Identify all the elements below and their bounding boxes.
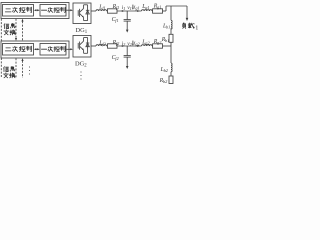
svg-text:Lb2: Lb2 [160,67,169,73]
tie line below row2 [170,46,172,63]
wire with current arrow i2 [117,45,142,47]
communication link down (below DG2) [15,58,17,78]
svg-text:Rf1: Rf1 [112,4,120,10]
svg-text:Lg1: Lg1 [141,4,149,10]
bidirectional arrow between secondary and primary control DG1 [34,9,40,11]
diode D2 inside DG2 [86,38,89,54]
svg-text:Lb1: Lb1 [162,24,170,30]
label information exchange (信息交换) between rows [4,23,16,34]
resistor Rb1 (vertical) [169,34,173,42]
DG1 controller outer box [1,3,69,19]
bidirectional arrow between secondary and primary control DG2 [34,48,40,50]
svg-text:Cf2: Cf2 [112,55,120,61]
resistor Rf1 [108,9,118,13]
resistor Rf2 [108,44,118,48]
capacitor Cf2 [124,46,131,69]
svg-text:v1: v1 [127,5,132,11]
arrow primary control to inverter DG1 [66,9,72,11]
communication link up (between DG2 and DG1) [21,19,23,41]
svg-text:Rg1: Rg1 [153,4,162,10]
DG2 controller outer box [1,41,69,58]
wire DG1 output [91,10,96,12]
inductor Lg2 [142,45,153,46]
svg-text:1: 1 [195,24,198,31]
communication link up (into DG2) [21,58,23,78]
resistor Rg1 [153,9,163,13]
arrow primary control to inverter DG2 [66,48,72,50]
label load 1 (负载1) [183,23,199,31]
current arrow ig2 [137,45,140,47]
svg-text:ig1: ig1 [134,5,140,11]
svg-text:Lg2: Lg2 [141,39,150,45]
wire [106,45,109,47]
load branch arrow [186,6,189,21]
inductor Lg1 [142,10,153,11]
wire to bottom edge [170,83,172,86]
wire [151,45,154,47]
communication link down (between DG1 and DG2) [15,19,17,41]
wire DG2 output [91,45,96,47]
left communication bus line [0,19,2,77]
diode D1 inside DG1 [86,5,89,21]
wire joining row2 [170,42,172,46]
svg-text:Lf2: Lf2 [98,40,106,46]
inductor Lb1 (vertical) [171,20,172,29]
inductor Lb2 (vertical) [171,63,172,72]
ellipsis below DG2 [80,71,81,79]
svg-text:Lf1: Lf1 [98,4,105,10]
inductor Lf1 [96,10,107,11]
inverter box DG1 [73,3,91,24]
svg-text:i1: i1 [122,5,126,11]
inductor Lf2 [96,45,107,46]
box secondary control (二次控制) DG2 [3,44,34,56]
box secondary control (二次控制) DG1 [3,5,34,17]
wire [170,72,172,76]
current arrow ig1 [137,10,140,12]
box primary control (一次控制) DG2 [40,44,66,56]
resistor Rg2 [153,44,163,48]
svg-text:Cf1: Cf1 [112,17,119,23]
box primary control (一次控制) DG1 [40,5,66,17]
wire to bus node [163,10,167,12]
wire [106,10,109,12]
svg-text:Rf2: Rf2 [112,40,121,46]
ellipsis left column [29,66,30,74]
wire [151,10,154,12]
IGBT Q2 inside DG2 [78,38,87,54]
top wire to load [166,5,187,7]
svg-text:Rb1: Rb1 [161,37,170,43]
svg-text:Rb2: Rb2 [159,78,168,84]
tie line down from top wire [170,6,172,20]
inverter box DG2 [73,36,91,58]
svg-text:ig2: ig2 [134,41,141,47]
svg-text:Rg2: Rg2 [153,39,162,45]
wire with current arrow i1 [117,10,142,12]
resistor Rb2 (vertical) [169,76,173,84]
wire to bus [163,45,172,47]
background [0,0,200,84]
label information exchange (信息交换) bottom [3,66,15,77]
riser wire [165,6,167,11]
capacitor Cf1 [124,11,131,33]
wire [170,28,172,34]
IGBT Q1 inside DG1 [78,5,87,21]
